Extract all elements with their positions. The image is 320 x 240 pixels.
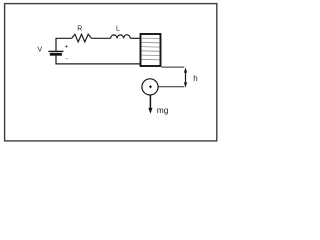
- svg-text:-: -: [65, 55, 67, 62]
- wire: resistor to inductor: [92, 37, 111, 39]
- svg-text:V: V: [37, 44, 42, 53]
- border frame: [5, 4, 217, 141]
- svg-text:h: h: [193, 74, 197, 83]
- inductor L (3 humps): [111, 35, 131, 39]
- svg-text:mg: mg: [157, 105, 169, 115]
- solenoid winding lines: [142, 38, 160, 60]
- dimension extension line (bottom, from ball center): [158, 86, 184, 88]
- dimension extension line (top, from magnet bottom): [161, 66, 184, 68]
- battery short thick plate (-): [50, 53, 62, 56]
- wire: battery bottom return to electromagnet (bottom horizontal): [56, 54, 140, 64]
- wire: inductor to electromagnet: [130, 37, 140, 39]
- svg-text:L: L: [116, 25, 120, 32]
- svg-text:R: R: [77, 25, 82, 32]
- ball center mark (+): [149, 85, 152, 88]
- dimension line h (double arrow): [184, 67, 187, 87]
- battery long plate (+): [48, 50, 63, 52]
- electromagnet / solenoid core (hatched box): [141, 34, 161, 66]
- wire: battery top to resistor (left vertical + top horizontal): [56, 38, 72, 51]
- ball (suspended mass): [142, 79, 158, 95]
- svg-text:+: +: [64, 43, 68, 50]
- resistor R (zigzag): [72, 34, 92, 42]
- battery V (voltage source): [48, 51, 63, 54]
- weight force arrow mg: [148, 95, 152, 114]
